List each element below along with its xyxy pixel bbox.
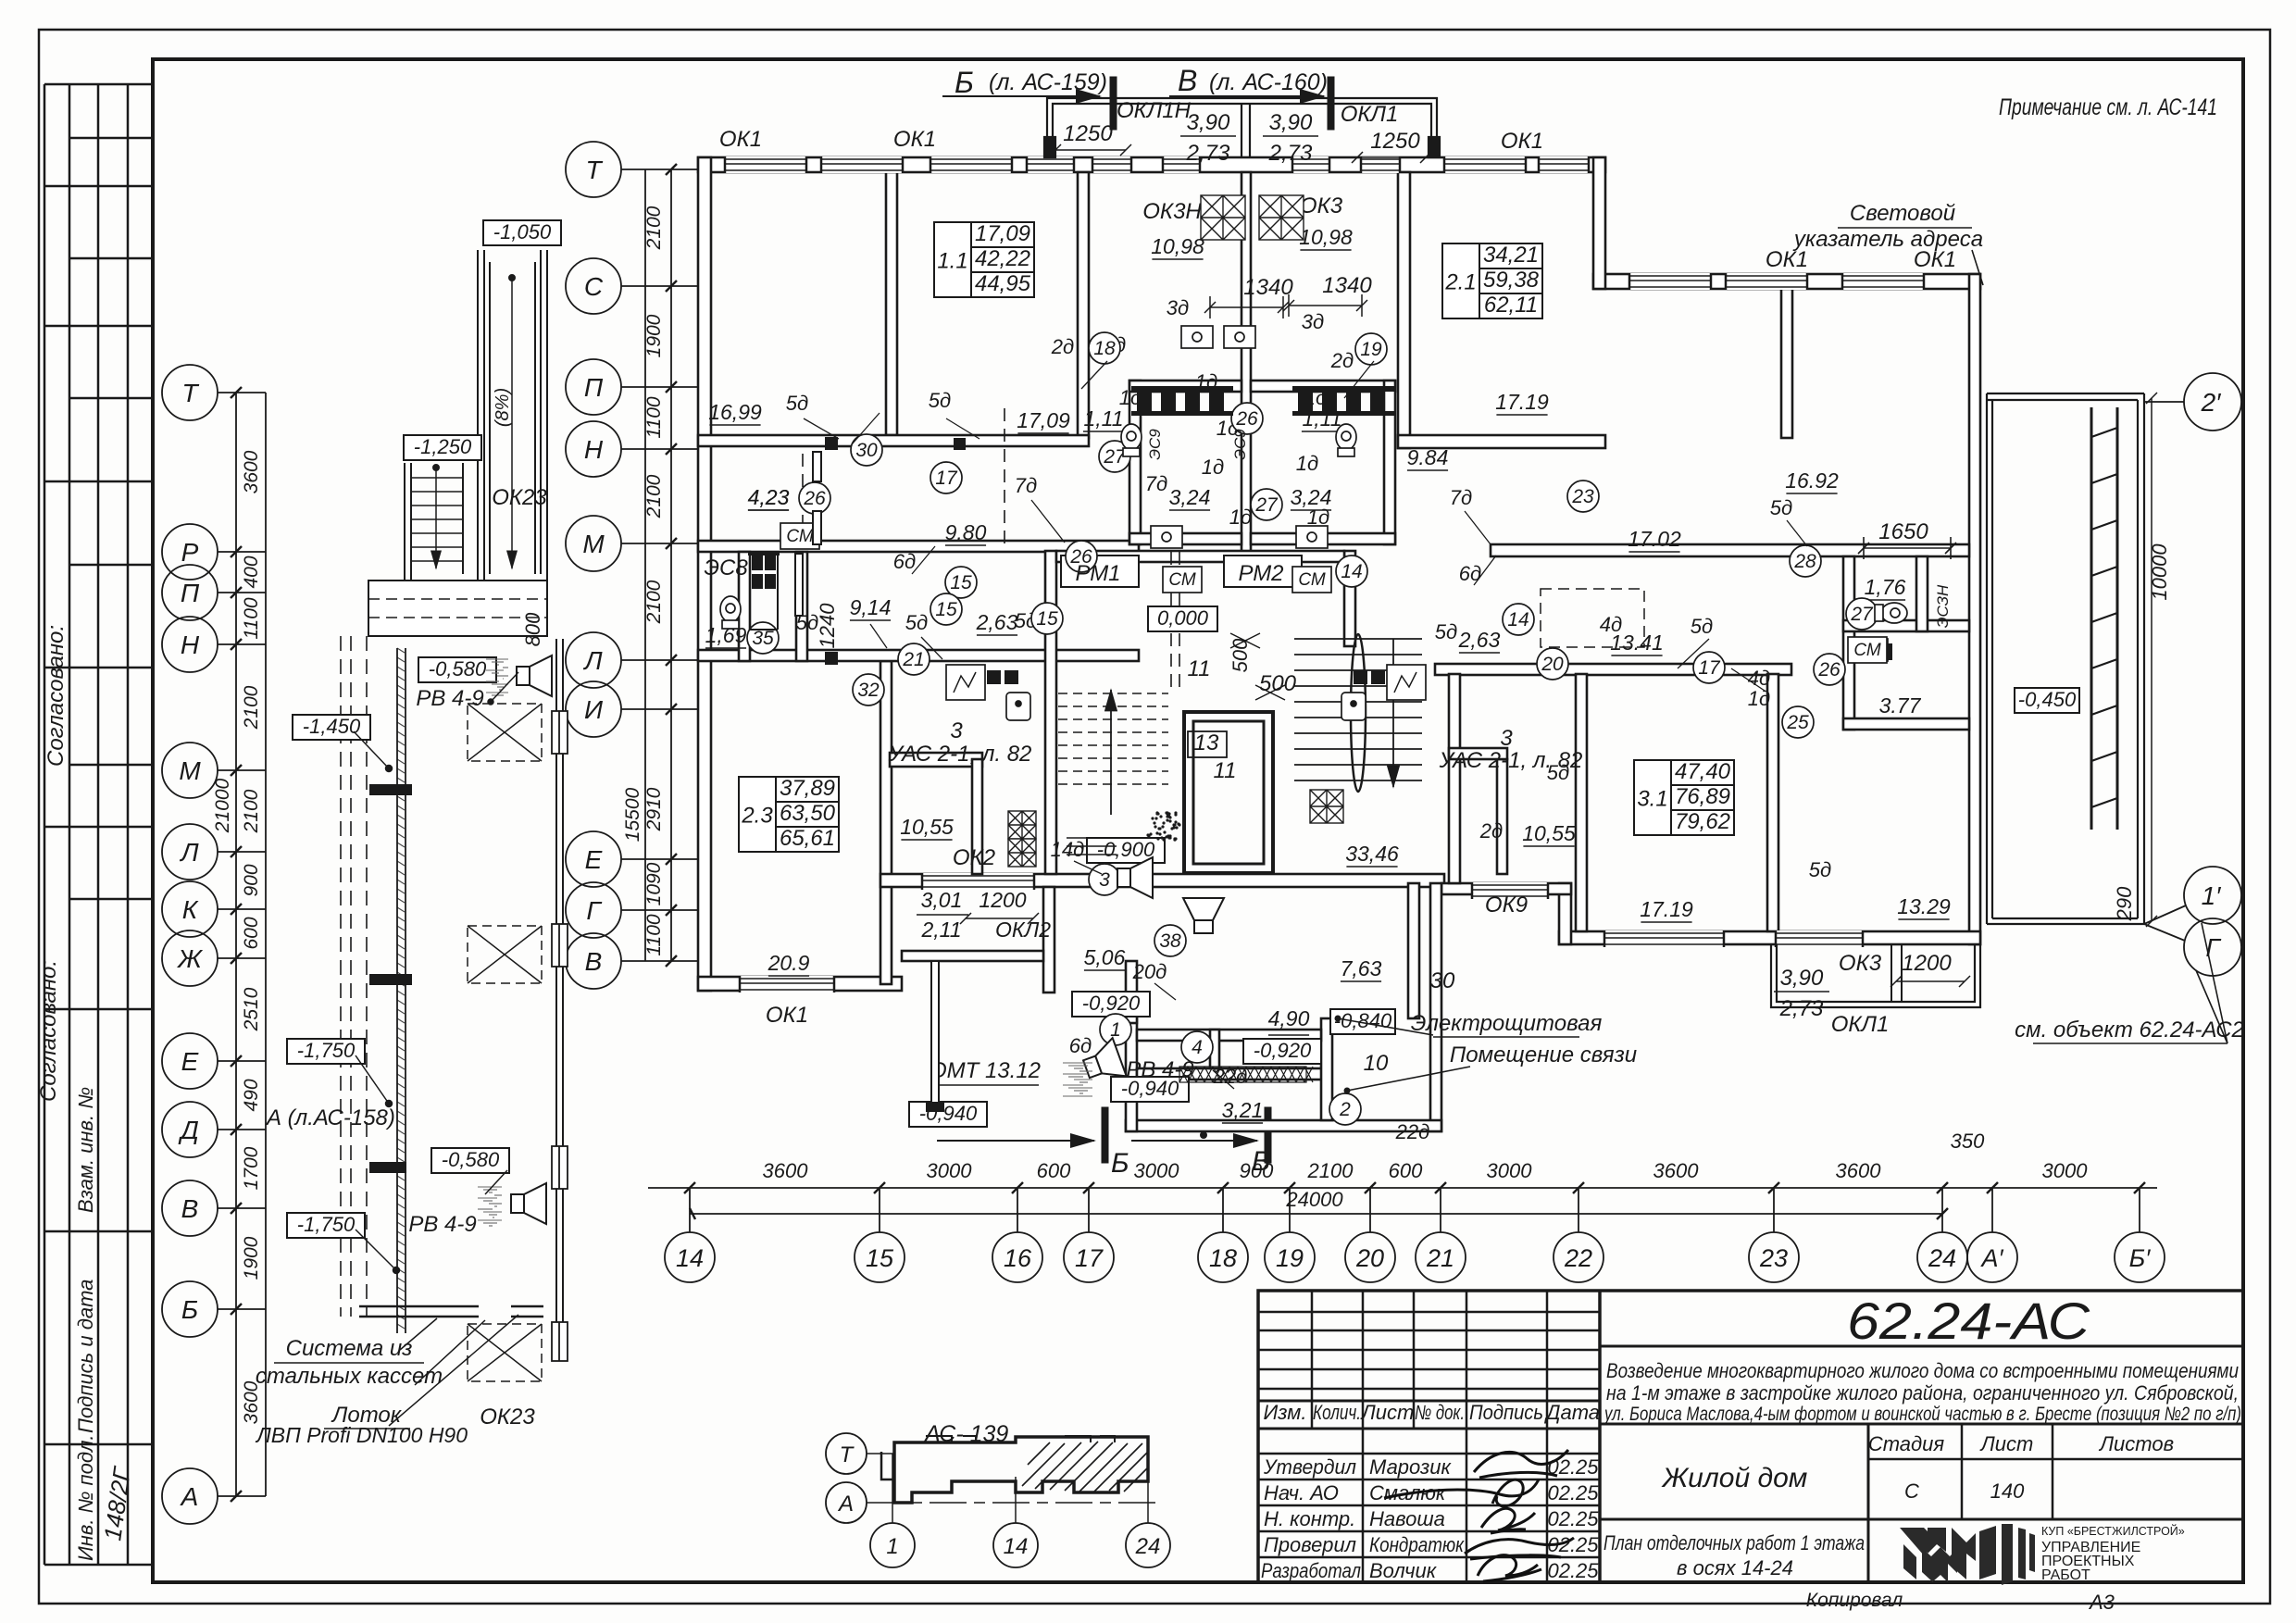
windows [725, 156, 1924, 993]
svg-text:3000: 3000 [2042, 1159, 2089, 1182]
svg-text:2д: 2д [1051, 335, 1074, 358]
axis И (inner col) [566, 681, 621, 737]
svg-text:Ж: Ж [176, 944, 204, 973]
svg-text:24: 24 [1928, 1244, 1956, 1272]
outdoor stair left [404, 463, 406, 581]
svg-text:17,09: 17,09 [1017, 408, 1070, 432]
door mark 27 [1099, 441, 1130, 472]
svg-text:План отделочных работ 1 этажа: План отделочных работ 1 этажа [1603, 1531, 1865, 1554]
wall: partition at axis H [698, 435, 1089, 446]
svg-text:РВ 4-9: РВ 4-9 [408, 1212, 476, 1237]
svg-text:17: 17 [1698, 657, 1721, 679]
svg-text:1090: 1090 [643, 862, 665, 905]
stair flight left (dashed treads) [1058, 690, 1168, 815]
svg-text:2,63: 2,63 [1458, 628, 1501, 652]
svg-text:2,63: 2,63 [976, 610, 1018, 634]
wall: partition east of room 17.19 (3.1) [1767, 674, 1778, 931]
key axis А [826, 1482, 867, 1523]
svg-text:600: 600 [1389, 1159, 1423, 1182]
svg-text:3,90: 3,90 [1187, 110, 1230, 135]
door mark 38 [1154, 925, 1186, 956]
svg-text:М: М [179, 756, 201, 785]
svg-text:10,55: 10,55 [900, 815, 954, 839]
svg-text:26: 26 [803, 488, 826, 509]
svg-text:140: 140 [1990, 1479, 2025, 1503]
svg-text:3д: 3д [1167, 296, 1189, 319]
svg-text:Согласовано:: Согласовано: [36, 960, 61, 1102]
svg-text:Кондратюк: Кондратюк [1369, 1533, 1465, 1556]
wall: bath block bottom right [1251, 533, 1395, 544]
svg-text:Согласовано:: Согласовано: [44, 625, 69, 767]
svg-text:38: 38 [1159, 930, 1181, 952]
axis 20 (bottom) [1345, 1232, 1395, 1282]
svg-text:2,73: 2,73 [1779, 996, 1824, 1021]
svg-text:Колич.: Колич. [1313, 1401, 1361, 1424]
svg-text:-1,750: -1,750 [297, 1213, 356, 1236]
svg-text:11: 11 [1188, 656, 1211, 681]
svg-text:15: 15 [866, 1244, 894, 1272]
OKL1 balcony divider [1890, 944, 1892, 1002]
section mark В bottom [1131, 1140, 1257, 1142]
svg-text:14: 14 [1507, 609, 1529, 630]
svg-text:-1,450: -1,450 [303, 715, 361, 738]
wall: west side of entrance porch [926, 961, 944, 1112]
window OK2 south recess [922, 873, 1034, 890]
door mark 17 [930, 462, 962, 493]
svg-text:42,22: 42,22 [975, 246, 1030, 271]
leader: svetovoy ukazatel [1972, 250, 1983, 285]
svg-text:47,40: 47,40 [1675, 759, 1731, 784]
svg-text:1340: 1340 [1322, 273, 1372, 298]
door mark 21 [898, 643, 930, 675]
svg-text:1100: 1100 [241, 597, 262, 639]
axis М (left col) [162, 743, 218, 798]
svg-text:ОК23: ОК23 [480, 1405, 535, 1429]
1250 ticks loggia [1055, 149, 1126, 151]
wall: bath block top left [1129, 381, 1242, 392]
svg-text:5д: 5д [905, 611, 928, 634]
svg-text:600: 600 [1037, 1159, 1071, 1182]
wall: bath block bottom right wing [1843, 718, 1969, 730]
svg-text:ОК1: ОК1 [1501, 129, 1543, 154]
entrance steps left lobby [1067, 838, 1117, 855]
svg-text:Л: Л [582, 646, 603, 675]
svg-text:СМ: СМ [1298, 570, 1326, 590]
window OK1 top right wing a [1629, 273, 1711, 290]
window OK1 top axis 14-15 a [725, 156, 806, 173]
svg-text:на 1-м этаже в застройке жилог: на 1-м этаже в застройке жилого района, … [1606, 1381, 2239, 1405]
axis 19 (bottom) [1265, 1232, 1315, 1282]
svg-text:18: 18 [1093, 338, 1116, 359]
svg-text:Т: Т [181, 379, 199, 407]
svg-text:Нач. АО: Нач. АО [1264, 1481, 1339, 1504]
wall: corridor north wall right wing [1491, 544, 1969, 556]
porch dotted block near 20d [1146, 811, 1180, 841]
wall: top of room 3.21 [1137, 1030, 1321, 1041]
svg-text:В: В [585, 947, 603, 976]
key axis 24 [1126, 1523, 1170, 1567]
svg-text:2100: 2100 [643, 580, 665, 624]
svg-text:К: К [182, 895, 199, 924]
wall: ES8 duct cell [749, 554, 751, 630]
svg-text:20.9: 20.9 [767, 951, 810, 975]
svg-text:Н. контр.: Н. контр. [1264, 1507, 1355, 1530]
wall: south wall of entrance annex [1126, 1120, 1441, 1131]
svg-text:Взам. инв. №: Взам. инв. № [74, 1087, 97, 1213]
svg-text:23: 23 [1571, 486, 1594, 507]
fraction labels 3,01/2,11 [917, 888, 1051, 942]
svg-text:500: 500 [1259, 671, 1297, 696]
svg-text:ОК1: ОК1 [766, 1003, 808, 1028]
svg-text:15500: 15500 [622, 787, 643, 842]
svg-text:Подпись и дата: Подпись и дата [74, 1280, 97, 1433]
svg-text:5д: 5д [1809, 858, 1831, 881]
svg-text:см. объект 62.24-АС2: см. объект 62.24-АС2 [2015, 1017, 2244, 1042]
svg-text:ЭС8: ЭС8 [704, 556, 748, 581]
svg-text:3,21: 3,21 [1222, 1098, 1264, 1122]
svg-text:2.3: 2.3 [741, 804, 773, 829]
ramp walls [477, 250, 479, 581]
door mark 20 [1537, 648, 1568, 680]
wall: west wall of flat 2.1 room [1398, 172, 1410, 448]
door mark 27 [1251, 489, 1282, 520]
svg-text:-0,900: -0,900 [1097, 838, 1155, 861]
svg-text:Лист: Лист [1360, 1401, 1415, 1424]
svg-text:2,11: 2,11 [920, 918, 961, 942]
svg-text:400: 400 [241, 556, 262, 588]
svg-text:Навоша: Навоша [1369, 1507, 1445, 1530]
svg-text:28: 28 [1793, 551, 1816, 572]
axis Б' (bottom) [2115, 1232, 2165, 1282]
svg-text:3,01: 3,01 [921, 888, 963, 912]
dim 500 marks in stair area [1230, 633, 1260, 648]
svg-text:Примечание см. л. АС-141: Примечание см. л. АС-141 [1999, 94, 2217, 120]
axis 15 (bottom) [855, 1232, 905, 1282]
svg-text:1д: 1д [1229, 506, 1252, 529]
svg-text:1340: 1340 [1243, 275, 1293, 300]
axis А (left col) [162, 1468, 218, 1524]
dim line 1650 [1858, 537, 1956, 559]
wall: top of room 10.55 left [890, 753, 982, 767]
wall: step between north walls at axis 22 [1593, 157, 1605, 289]
axis Л (left col) [162, 824, 218, 880]
door mark 28 [1790, 545, 1821, 577]
apartment table 2.3 [739, 777, 839, 852]
svg-text:РВ 4-9: РВ 4-9 [1126, 1057, 1193, 1082]
wall: west of kitchen right [1497, 759, 1507, 874]
window OK1 south right wing [1604, 930, 1724, 947]
window OK1 top axis 14-15 b [821, 156, 903, 173]
svg-text:23: 23 [1759, 1244, 1788, 1272]
wall: south wall of flat 2.1 room [1398, 435, 1605, 448]
door mark 26 [1231, 403, 1263, 434]
wall: south exterior right part [1559, 931, 1980, 944]
wall: east wall of room 20.9 [880, 661, 892, 984]
PM1 PM2 niches [1061, 556, 1302, 587]
wall: west exterior (axis 14) [698, 157, 711, 991]
wall: partition between rooms 16.99 and 1.1 [886, 172, 897, 435]
window OK1 top flat 2.1 b [1539, 156, 1589, 173]
svg-text:1900: 1900 [241, 1236, 262, 1280]
svg-text:Электрощитовая: Электрощитовая [1411, 1011, 1603, 1036]
svg-text:27: 27 [1254, 494, 1279, 516]
section mark Б bottom [937, 1140, 1094, 1142]
svg-text:20д: 20д [1132, 960, 1167, 983]
svg-text:С: С [584, 272, 604, 301]
svg-text:14д: 14д [1051, 838, 1085, 861]
svg-text:3д: 3д [1302, 310, 1324, 333]
door mark 15 [945, 567, 977, 598]
key building outline [894, 1437, 1148, 1503]
svg-text:-0,840: -0,840 [1334, 1009, 1392, 1032]
wall: bath block west right wing [1843, 556, 1854, 730]
svg-text:21: 21 [1426, 1244, 1454, 1272]
black vent blocks [748, 386, 1892, 660]
svg-text:РАБОТ: РАБОТ [2041, 1567, 2090, 1583]
svg-text:3: 3 [950, 718, 963, 743]
window OK1 top axis 15-16 a [930, 156, 1012, 173]
svg-text:17,09: 17,09 [975, 221, 1030, 246]
svg-text:21: 21 [902, 649, 924, 670]
svg-text:21000: 21000 [212, 778, 233, 833]
svg-text:22: 22 [1564, 1244, 1592, 1272]
axis 16 (bottom) [992, 1232, 1042, 1282]
svg-text:ОК3: ОК3 [1839, 951, 1882, 976]
svg-text:02.25: 02.25 [1547, 1481, 1599, 1504]
loudspeakers [511, 655, 1224, 1224]
apartment table 1.1 [934, 222, 1034, 297]
axis В (left col) [162, 1180, 218, 1236]
kitchen stoves checkerboards [1008, 195, 1343, 867]
wall: east exterior (axis 24) [1969, 274, 1980, 944]
svg-text:1,11: 1,11 [1083, 406, 1123, 431]
wall: ES8 room east [796, 552, 807, 661]
svg-text:2: 2 [1339, 1099, 1351, 1120]
svg-text:19: 19 [1360, 339, 1382, 360]
svg-text:44,95: 44,95 [975, 271, 1031, 296]
svg-text:ЭС9: ЭС9 [1146, 429, 1164, 460]
door mark 14 [1336, 556, 1367, 587]
svg-text:Волчик: Волчик [1369, 1559, 1438, 1582]
svg-text:1д: 1д [1296, 452, 1318, 475]
svg-text:1650: 1650 [1878, 519, 1928, 544]
wall: stair lobby north wall [1056, 551, 1344, 562]
svg-text:6д: 6д [1069, 1034, 1092, 1057]
svg-text:10,55: 10,55 [1522, 821, 1576, 845]
door mark 23 [1567, 481, 1599, 512]
svg-text:1,76: 1,76 [1865, 575, 1906, 599]
svg-text:РМ2: РМ2 [1238, 561, 1283, 586]
wall: partition in annex (room 3.21) [1137, 1068, 1330, 1080]
svg-text:2д: 2д [1330, 349, 1354, 372]
wall: stub near door 22d [1210, 1030, 1219, 1068]
svg-text:ОК9: ОК9 [1485, 893, 1528, 918]
stair flight right (treads) [1294, 634, 1422, 792]
svg-text:Б: Б [955, 66, 974, 99]
svg-text:9.84: 9.84 [1407, 445, 1449, 469]
svg-text:№ док.: № док. [1415, 1401, 1465, 1424]
svg-text:3,90: 3,90 [1780, 966, 1824, 991]
svg-text:ОКЛ1: ОКЛ1 [1341, 102, 1399, 127]
svg-text:63,50: 63,50 [780, 801, 836, 826]
svg-text:ОКЛ2: ОКЛ2 [995, 918, 1051, 942]
svg-text:1д: 1д [1748, 687, 1770, 710]
wall: bath divider right wing [1843, 620, 1969, 631]
svg-text:1250: 1250 [1370, 129, 1420, 154]
svg-text:9,14: 9,14 [850, 595, 892, 619]
axis 22 (bottom) [1554, 1232, 1603, 1282]
axis С (inner col) [566, 258, 621, 314]
loggia OKL1N / OKL1 top [1044, 98, 1440, 157]
leader: electroshitovaya [1338, 1018, 1433, 1035]
svg-text:17: 17 [935, 468, 958, 489]
wall: ES8 room west [739, 552, 750, 661]
axis Ж (left col) [162, 930, 218, 986]
key axis Т [826, 1433, 867, 1474]
svg-text:Е: Е [181, 1047, 199, 1076]
section mark В [1169, 95, 1324, 97]
svg-text:62.24-АС: 62.24-АС [1847, 1292, 2090, 1350]
svg-text:ОК1: ОК1 [719, 127, 762, 152]
axis 2' (right) [2184, 373, 2241, 431]
svg-text:2100: 2100 [643, 474, 665, 518]
door mark 15b [930, 593, 962, 625]
svg-text:35: 35 [752, 628, 774, 649]
svg-text:1: 1 [886, 1534, 898, 1559]
svg-text:11: 11 [1214, 758, 1237, 783]
svg-text:33,46: 33,46 [1345, 842, 1399, 866]
svg-text:ОК2: ОК2 [953, 845, 995, 870]
wall: west wall of room 33.46/10.55 right [1449, 674, 1460, 883]
svg-text:76,89: 76,89 [1675, 784, 1730, 809]
svg-text:3,24: 3,24 [1169, 485, 1211, 509]
key plan hatch [1022, 1442, 1148, 1492]
svg-text:0,000: 0,000 [1157, 606, 1209, 630]
door label leaders [804, 361, 1807, 1089]
window OK1 top right wing c [1842, 273, 1924, 290]
svg-text:2′: 2′ [2201, 388, 2223, 417]
svg-text:10,98: 10,98 [1299, 225, 1353, 249]
axis Е (inner col) [566, 831, 621, 887]
hatched mats [1179, 1067, 1313, 1082]
sinks [1151, 326, 1888, 661]
svg-text:стальных кассет: стальных кассет [256, 1364, 443, 1389]
svg-text:-1,050: -1,050 [493, 220, 552, 243]
axis В (inner col) [566, 933, 621, 989]
dim 1340 right [1289, 305, 1362, 306]
svg-text:10,98: 10,98 [1151, 234, 1204, 258]
axis Н (left col) [162, 617, 218, 672]
dashed boxes (crosses) on facade [468, 704, 542, 1381]
svg-text:2,73: 2,73 [1268, 141, 1313, 166]
svg-text:2100: 2100 [241, 789, 262, 833]
svg-text:2100: 2100 [241, 685, 262, 730]
svg-text:15: 15 [950, 572, 972, 593]
svg-text:УАС 2-1, л. 82: УАС 2-1, л. 82 [1439, 748, 1583, 773]
svg-text:13.29: 13.29 [1897, 894, 1951, 918]
svg-text:С: С [1904, 1479, 1919, 1503]
svg-text:-0,450: -0,450 [2018, 688, 2077, 711]
svg-text:24000: 24000 [1285, 1188, 1343, 1211]
svg-text:290: 290 [2113, 886, 2136, 921]
svg-text:7д: 7д [1145, 472, 1167, 495]
svg-text:2д: 2д [1479, 819, 1503, 843]
svg-text:РМ1: РМ1 [1075, 561, 1120, 586]
svg-text:И: И [584, 695, 604, 724]
title block [1258, 1291, 2243, 1582]
svg-text:3: 3 [1500, 726, 1513, 751]
svg-text:КУП «БРЕСТЖИЛСТРОЙ»: КУП «БРЕСТЖИЛСТРОЙ» [2041, 1524, 2185, 1538]
door mark 1 [1100, 1014, 1131, 1045]
svg-text:62,11: 62,11 [1484, 293, 1538, 318]
door mark 2 [1329, 1093, 1361, 1125]
svg-text:3600: 3600 [1653, 1159, 1700, 1182]
svg-text:ОК3Н: ОК3Н [1142, 199, 1202, 224]
svg-text:17.02: 17.02 [1628, 527, 1681, 551]
door mark 15 [1031, 603, 1063, 634]
svg-text:П: П [584, 373, 604, 402]
svg-text:3000: 3000 [927, 1159, 973, 1182]
svg-text:СМ: СМ [1853, 641, 1881, 660]
svg-text:3600: 3600 [763, 1159, 809, 1182]
svg-text:3: 3 [1099, 869, 1110, 891]
axis Б (left col) [162, 1281, 218, 1337]
dashed closet in corridor 17.02 [1541, 589, 1644, 647]
wall: top of kitchen right [1449, 748, 1507, 759]
axis П (inner col) [566, 359, 621, 415]
svg-text:2.1: 2.1 [1444, 270, 1476, 295]
svg-text:4,90: 4,90 [1268, 1006, 1310, 1030]
extra partitions room 4,23 / ES8 [750, 452, 821, 630]
svg-text:ОКЛ1: ОКЛ1 [1831, 1012, 1890, 1037]
svg-text:02.25: 02.25 [1547, 1507, 1599, 1530]
wall: partition at axis M left wing [698, 541, 1139, 552]
svg-text:27: 27 [1850, 604, 1874, 625]
svg-text:17: 17 [1075, 1244, 1104, 1272]
axis Д (left col) [162, 1102, 218, 1157]
window top small a [1163, 156, 1200, 173]
svg-text:20: 20 [1541, 654, 1564, 675]
svg-text:14: 14 [1341, 561, 1362, 582]
wall: west of vestibule -0.920 [1126, 961, 1137, 1023]
svg-text:ОК23: ОК23 [492, 485, 547, 510]
window OK1 top flat 2.1 a [1444, 156, 1526, 173]
svg-text:9.80: 9.80 [945, 520, 987, 544]
wall: north exterior (axis T), axes 14-22 [698, 157, 1605, 172]
small dim lines [960, 144, 1970, 987]
wall: bath divider vertical right wing [1916, 556, 1928, 631]
svg-text:Световой: Световой [1850, 201, 1955, 226]
svg-text:СМ: СМ [1168, 570, 1196, 590]
apartment table 2.1 [1442, 243, 1542, 318]
door mark 26 [1066, 541, 1097, 572]
svg-text:ЭС9: ЭС9 [1231, 429, 1249, 460]
door mark 25 [1782, 706, 1814, 738]
wall: bath block top right [1251, 381, 1395, 392]
svg-text:Копировал: Копировал [1806, 1590, 1903, 1611]
axis П (left col) [162, 565, 218, 620]
svg-text:Марозик: Марозик [1369, 1455, 1452, 1479]
wall: bath block bottom left [1129, 533, 1242, 544]
svg-text:3000: 3000 [1487, 1159, 1533, 1182]
wall: divider ES8 / corridor 9,14 [795, 554, 803, 616]
svg-text:В: В [1252, 1146, 1270, 1177]
window OK3N top left [1092, 156, 1131, 173]
svg-text:1.1: 1.1 [937, 249, 967, 274]
key axis 14 [993, 1523, 1038, 1567]
window OK1 top axis 15-16 b [1027, 156, 1074, 173]
svg-text:02.25: 02.25 [1547, 1559, 1599, 1582]
